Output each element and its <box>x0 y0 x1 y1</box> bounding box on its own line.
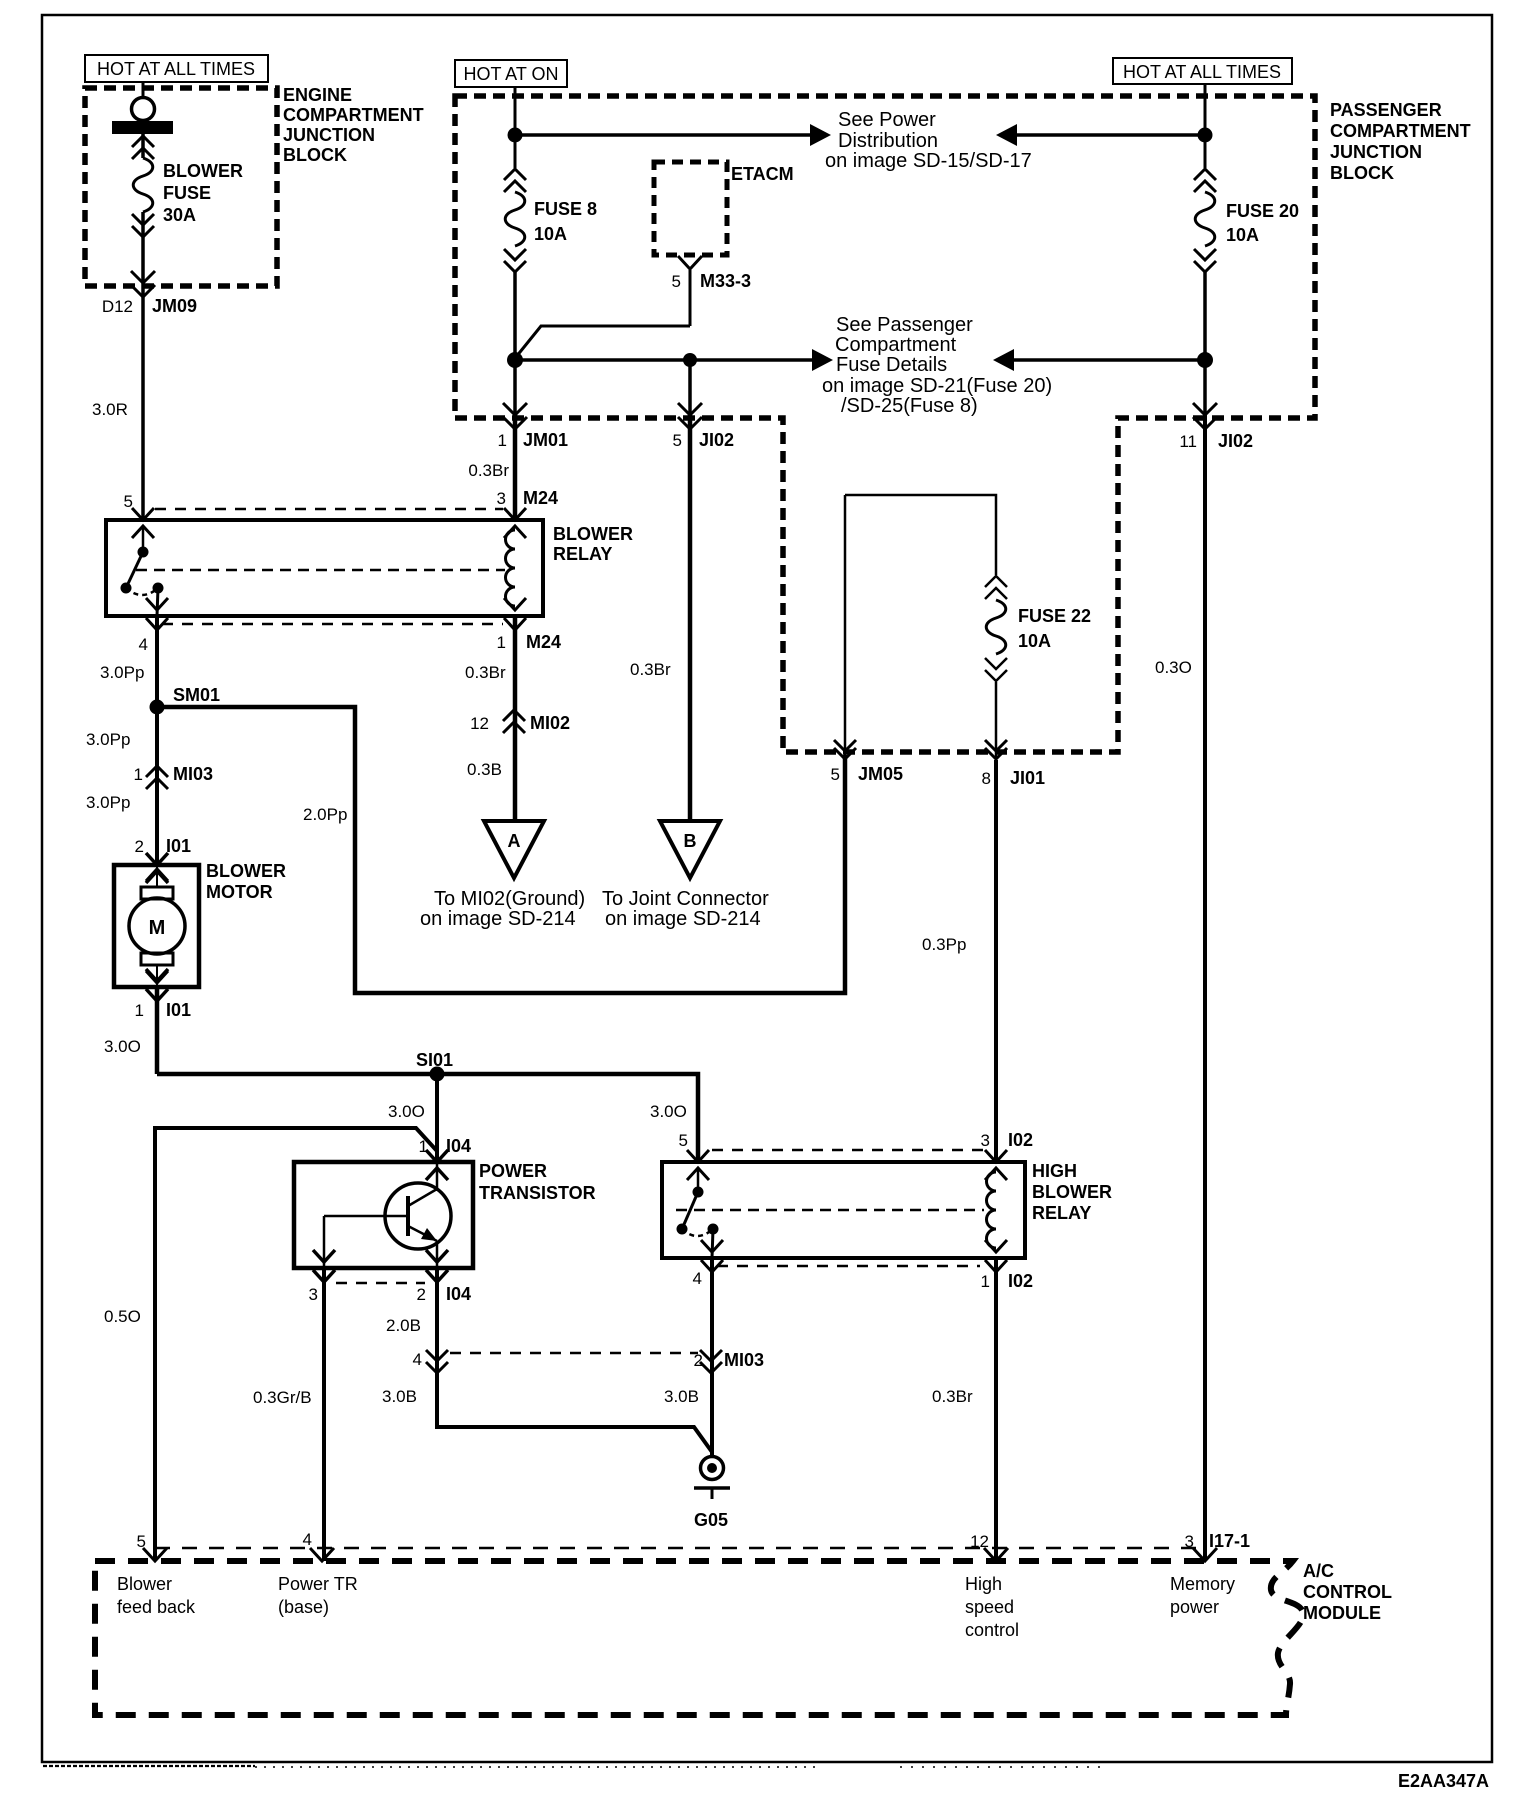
svg-text:3: 3 <box>497 489 506 508</box>
svg-text:Distribution: Distribution <box>838 130 938 152</box>
svg-text:FUSE: FUSE <box>163 183 211 203</box>
svg-text:3.0B: 3.0B <box>382 1387 417 1406</box>
svg-text:E2AA347A: E2AA347A <box>1398 1771 1489 1791</box>
svg-text:HOT AT ON: HOT AT ON <box>463 64 558 84</box>
svg-text:JI02: JI02 <box>1218 431 1253 451</box>
svg-text:MI02: MI02 <box>530 713 570 733</box>
svg-text:0.3O: 0.3O <box>1155 658 1192 677</box>
svg-text:10A: 10A <box>534 224 567 244</box>
svg-text:I01: I01 <box>166 1000 191 1020</box>
svg-text:B: B <box>684 831 697 851</box>
svg-text:3.0O: 3.0O <box>388 1102 425 1121</box>
svg-text:MI03: MI03 <box>173 764 213 784</box>
svg-text:3.0Pp: 3.0Pp <box>86 730 130 749</box>
svg-text:Memory: Memory <box>1170 1574 1235 1594</box>
svg-text:PASSENGER: PASSENGER <box>1330 100 1442 120</box>
svg-text:Compartment: Compartment <box>835 334 957 356</box>
svg-text:MI03: MI03 <box>724 1350 764 1370</box>
svg-text:3.0O: 3.0O <box>104 1037 141 1056</box>
svg-text:HOT AT ALL TIMES: HOT AT ALL TIMES <box>1123 62 1281 82</box>
svg-text:G05: G05 <box>694 1510 728 1530</box>
svg-text:feed back: feed back <box>117 1597 196 1617</box>
svg-text:Fuse Details: Fuse Details <box>836 354 947 376</box>
svg-text:BLOWER: BLOWER <box>206 861 286 881</box>
svg-text:3: 3 <box>981 1131 990 1150</box>
svg-text:JM09: JM09 <box>152 296 197 316</box>
svg-text:10A: 10A <box>1226 225 1259 245</box>
svg-text:ETACM: ETACM <box>731 164 794 184</box>
svg-text:4: 4 <box>693 1269 702 1288</box>
svg-text:See Passenger: See Passenger <box>836 314 973 336</box>
svg-text:FUSE 8: FUSE 8 <box>534 199 597 219</box>
svg-text:BLOWER: BLOWER <box>1032 1182 1112 1202</box>
svg-text:M33-3: M33-3 <box>700 271 751 291</box>
svg-text:3.0B: 3.0B <box>664 1387 699 1406</box>
svg-text:JUNCTION: JUNCTION <box>1330 142 1422 162</box>
svg-text:JM05: JM05 <box>858 764 903 784</box>
svg-text:1: 1 <box>419 1137 428 1156</box>
svg-text:0.3Br: 0.3Br <box>465 663 506 682</box>
svg-text:I04: I04 <box>446 1284 471 1304</box>
svg-text:ENGINE: ENGINE <box>283 85 352 105</box>
svg-text:FUSE 20: FUSE 20 <box>1226 201 1299 221</box>
svg-text:5: 5 <box>679 1131 688 1150</box>
svg-text:0.5O: 0.5O <box>104 1307 141 1326</box>
svg-text:2.0B: 2.0B <box>386 1316 421 1335</box>
svg-text:BLOWER: BLOWER <box>553 524 633 544</box>
svg-text:11: 11 <box>1179 432 1197 451</box>
svg-text:3.0Pp: 3.0Pp <box>86 793 130 812</box>
svg-text:4: 4 <box>303 1530 312 1549</box>
svg-text:3.0R: 3.0R <box>92 400 128 419</box>
svg-text:2.0Pp: 2.0Pp <box>303 805 347 824</box>
svg-text:Power TR: Power TR <box>278 1574 358 1594</box>
svg-text:power: power <box>1170 1597 1219 1617</box>
svg-text:M24: M24 <box>526 632 561 652</box>
svg-text:3.0Pp: 3.0Pp <box>100 663 144 682</box>
svg-text:BLOWER: BLOWER <box>163 161 243 181</box>
svg-text:HIGH: HIGH <box>1032 1161 1077 1181</box>
svg-text:2: 2 <box>694 1351 703 1370</box>
svg-text:COMPARTMENT: COMPARTMENT <box>1330 121 1471 141</box>
svg-text:0.3Pp: 0.3Pp <box>922 935 966 954</box>
svg-text:5: 5 <box>672 272 681 291</box>
svg-text:M: M <box>149 917 166 939</box>
svg-text:4: 4 <box>139 635 148 654</box>
svg-text:on image SD-21(Fuse 20): on image SD-21(Fuse 20) <box>822 375 1052 397</box>
svg-text:1: 1 <box>981 1272 990 1291</box>
svg-text:JUNCTION: JUNCTION <box>283 125 375 145</box>
svg-text:RELAY: RELAY <box>1032 1203 1091 1223</box>
svg-text:See Power: See Power <box>838 109 936 131</box>
svg-text:JM01: JM01 <box>523 430 568 450</box>
svg-text:RELAY: RELAY <box>553 544 612 564</box>
svg-text:4: 4 <box>413 1350 422 1369</box>
svg-text:10A: 10A <box>1018 631 1051 651</box>
svg-text:JI02: JI02 <box>699 430 734 450</box>
svg-text:on image SD-214: on image SD-214 <box>605 908 761 930</box>
svg-text:1: 1 <box>498 431 507 450</box>
svg-text:8: 8 <box>982 769 991 788</box>
svg-text:/SD-25(Fuse 8): /SD-25(Fuse 8) <box>841 395 978 417</box>
svg-text:POWER: POWER <box>479 1161 547 1181</box>
svg-text:2: 2 <box>417 1285 426 1304</box>
svg-text:2: 2 <box>135 837 144 856</box>
svg-text:To MI02(Ground): To MI02(Ground) <box>434 888 585 910</box>
svg-text:control: control <box>965 1620 1019 1640</box>
svg-text:on image SD-15/SD-17: on image SD-15/SD-17 <box>825 150 1032 172</box>
svg-text:3.0O: 3.0O <box>650 1102 687 1121</box>
svg-text:SI01: SI01 <box>416 1050 453 1070</box>
svg-text:Blower: Blower <box>117 1574 172 1594</box>
svg-text:TRANSISTOR: TRANSISTOR <box>479 1183 596 1203</box>
svg-text:5: 5 <box>124 492 133 511</box>
svg-text:D12: D12 <box>102 297 133 316</box>
svg-text:speed: speed <box>965 1597 1014 1617</box>
svg-text:A/C: A/C <box>1303 1561 1334 1581</box>
svg-text:HOT AT ALL TIMES: HOT AT ALL TIMES <box>97 59 255 79</box>
svg-text:0.3Br: 0.3Br <box>630 660 671 679</box>
svg-text:(base): (base) <box>278 1597 329 1617</box>
svg-text:To Joint Connector: To Joint Connector <box>602 888 769 910</box>
svg-text:JI01: JI01 <box>1010 768 1045 788</box>
svg-text:5: 5 <box>137 1532 146 1551</box>
svg-text:12: 12 <box>970 1532 989 1551</box>
svg-text:0.3Gr/B: 0.3Gr/B <box>253 1388 312 1407</box>
svg-text:FUSE 22: FUSE 22 <box>1018 606 1091 626</box>
svg-text:MODULE: MODULE <box>1303 1603 1381 1623</box>
svg-text:M24: M24 <box>523 488 558 508</box>
svg-text:3: 3 <box>1185 1532 1194 1551</box>
svg-text:12: 12 <box>470 714 489 733</box>
svg-text:BLOCK: BLOCK <box>1330 163 1394 183</box>
svg-text:on image SD-214: on image SD-214 <box>420 908 576 930</box>
svg-text:A: A <box>508 831 521 851</box>
svg-text:1: 1 <box>134 765 143 784</box>
svg-text:I02: I02 <box>1008 1130 1033 1150</box>
svg-text:MOTOR: MOTOR <box>206 882 273 902</box>
svg-text:I02: I02 <box>1008 1271 1033 1291</box>
svg-text:1: 1 <box>135 1001 144 1020</box>
svg-text:SM01: SM01 <box>173 685 220 705</box>
svg-text:3: 3 <box>309 1285 318 1304</box>
svg-text:COMPARTMENT: COMPARTMENT <box>283 105 424 125</box>
svg-text:0.3B: 0.3B <box>467 760 502 779</box>
svg-text:5: 5 <box>673 431 682 450</box>
svg-text:I04: I04 <box>446 1136 471 1156</box>
svg-text:I17-1: I17-1 <box>1209 1531 1250 1551</box>
svg-text:0.3Br: 0.3Br <box>468 461 509 480</box>
svg-text:I01: I01 <box>166 836 191 856</box>
svg-text:BLOCK: BLOCK <box>283 145 347 165</box>
svg-text:0.3Br: 0.3Br <box>932 1387 973 1406</box>
svg-text:CONTROL: CONTROL <box>1303 1582 1392 1602</box>
svg-text:30A: 30A <box>163 205 196 225</box>
svg-text:5: 5 <box>831 765 840 784</box>
svg-text:High: High <box>965 1574 1002 1594</box>
svg-text:1: 1 <box>497 633 506 652</box>
